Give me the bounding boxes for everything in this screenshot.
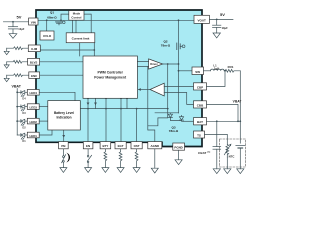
wire SW output: [204, 70, 211, 72]
wire bus to OST pin: [136, 109, 138, 142]
pin AGND: [148, 142, 162, 149]
svg-text:OST: OST: [134, 144, 140, 148]
svg-text:ILIM: ILIM: [31, 47, 37, 51]
svg-text:D1: D1: [22, 139, 26, 143]
wire Q3 link: [155, 112, 179, 114]
capacitor C-out: [213, 19, 221, 33]
wire VIN input: [3, 21, 28, 23]
pin VIN: [29, 18, 38, 25]
wire CBB to battery node: [207, 104, 239, 121]
wire comparator output to PWM: [139, 89, 151, 91]
svg-text:PWM Controller: PWM Controller: [97, 71, 123, 75]
wire Mode Control right: [84, 14, 91, 33]
resistor R-BTY: [104, 149, 107, 168]
svg-text:AGND: AGND: [151, 144, 160, 148]
wire VOUT output: [209, 18, 233, 20]
block Battery Level Indication: [48, 101, 81, 130]
transistor Q2: [177, 43, 185, 50]
ground BTY: [102, 168, 109, 173]
svg-text:Control: Control: [71, 16, 81, 20]
wire to AGND pin: [148, 67, 155, 142]
svg-text:C BAT: C BAT: [198, 151, 207, 155]
wire bus horizontal: [80, 108, 167, 110]
pin CBP: [194, 83, 207, 90]
pin BLVS: [28, 58, 40, 65]
svg-text:LED1: LED1: [30, 134, 38, 138]
wire PWM stub right: [126, 98, 128, 108]
svg-text:LED4: LED4: [30, 91, 38, 95]
wire BAT output: [207, 120, 241, 122]
resistor R-ENC: [7, 74, 29, 77]
wire CBAT: [216, 121, 218, 146]
ground ILIM: [4, 48, 9, 55]
pin ENC: [29, 72, 40, 79]
pin EN: [83, 142, 93, 149]
switch EN: [87, 149, 91, 168]
pin OST: [131, 142, 142, 149]
IC body U1: [36, 10, 202, 147]
pin EGT: [115, 142, 126, 149]
battery cell: [236, 145, 245, 168]
pin LED4: [27, 90, 39, 96]
block PWM Controller Power Management: [83, 56, 137, 98]
ground PB: [60, 168, 67, 173]
wire RCS to battery: [239, 71, 241, 143]
LED D4: [16, 91, 27, 97]
op-amp driver A1: [149, 59, 163, 69]
svg-text:D3: D3: [22, 111, 26, 115]
battery pack dashed box: [220, 139, 246, 167]
svg-text:LED3: LED3: [30, 105, 38, 109]
block Mode Control: [69, 11, 84, 21]
svg-text:VOUT: VOUT: [198, 18, 207, 22]
wire ILIM to PWM: [40, 43, 94, 56]
pin BAT: [194, 118, 207, 125]
wire PGND to ground: [178, 150, 180, 160]
resistor R-OST: [135, 149, 138, 168]
block UVLO: [40, 31, 54, 40]
svg-text:(1): (1): [208, 152, 211, 154]
wire ENC to PWM: [40, 74, 83, 76]
capacitor CBAT: [213, 147, 221, 169]
svg-text:BLVS: BLVS: [30, 61, 38, 65]
svg-text:Driver: Driver: [150, 62, 158, 66]
wire Mode Control to Current limit stubs: [73, 20, 77, 33]
pin SW: [192, 67, 204, 75]
svg-text:Power Management: Power Management: [94, 76, 127, 80]
ground battery: [237, 169, 244, 174]
pin LED3: [27, 104, 39, 110]
svg-text:1μH: 1μH: [214, 67, 219, 71]
wire Current limit to PWM: [79, 43, 81, 56]
svg-text:10μF: 10μF: [18, 27, 24, 31]
op-amp error comparator A2: [150, 83, 164, 96]
wire PWM to EGT pin: [120, 98, 122, 141]
node L1-RCS: [224, 70, 226, 72]
ground input cap: [9, 34, 17, 39]
wire TS to NTC: [205, 134, 228, 144]
transistor Q3b: [179, 115, 183, 121]
LED D1: [17, 133, 27, 139]
ground NTC: [224, 169, 231, 174]
transistor Q3a: [168, 113, 181, 121]
transistor Q1: [56, 21, 66, 25]
svg-text:Battery Level: Battery Level: [54, 111, 74, 115]
wire VBAT bus: [16, 89, 18, 136]
resistor RCS: [225, 69, 240, 72]
svg-text:CBP: CBP: [197, 85, 203, 89]
pin TS: [194, 131, 205, 138]
svg-text:UVLO: UVLO: [43, 34, 52, 38]
node input cap junction: [12, 21, 14, 23]
LED D3: [16, 105, 27, 111]
wire LED3 to battery block: [39, 106, 48, 108]
wire PWM stub to bus: [95, 98, 97, 108]
wire PWM to BTY pin: [105, 98, 107, 141]
pin CBB: [194, 101, 207, 108]
wire battery block to PB pin: [63, 130, 65, 142]
svg-text:V BAT: V BAT: [233, 99, 242, 103]
pin PB: [59, 142, 69, 149]
wire LED2 to battery block: [39, 120, 48, 122]
resistor R-BLVS: [7, 60, 28, 63]
svg-text:10μF: 10μF: [222, 26, 228, 30]
wire BAT internal: [183, 120, 193, 122]
svg-text:EN: EN: [86, 144, 90, 148]
wire comparator input CBP: [164, 86, 193, 88]
svg-text:Current limit: Current limit: [72, 37, 90, 41]
svg-text:ENC: ENC: [31, 74, 38, 78]
wire LED1 to battery block: [39, 130, 52, 135]
svg-text:LED2: LED2: [30, 120, 38, 124]
ground OST: [133, 168, 140, 173]
svg-text:5V: 5V: [17, 14, 22, 19]
wire PWM to EN pin: [87, 98, 89, 141]
svg-text:CBB: CBB: [197, 103, 204, 107]
pin VOUT: [194, 15, 209, 23]
ground ENC: [4, 75, 9, 82]
pin ILIM: [28, 45, 40, 52]
svg-text:Q1: Q1: [50, 11, 54, 15]
block Current limit: [66, 33, 95, 43]
wire LED4 to battery block: [39, 92, 75, 100]
inductor L1: [211, 69, 225, 71]
wire PWM to driver inputs: [137, 62, 148, 67]
thermistor NTC: [224, 144, 231, 157]
wire BLVS to PWM: [40, 61, 83, 63]
svg-text:BAT: BAT: [197, 120, 203, 124]
resistor R-ILIM: [7, 47, 29, 50]
ground AGND: [151, 168, 158, 173]
wire bus end down: [148, 64, 168, 126]
svg-text:VBAT: VBAT: [11, 85, 21, 89]
svg-text:R​CS: R​CS: [228, 65, 234, 69]
wire Mode Control left: [60, 19, 62, 21]
wire top rail VIN to VOUT: [38, 19, 194, 21]
wire NTC to ground: [226, 157, 228, 169]
wire Q2 drain rail: [178, 20, 180, 113]
svg-text:Indication: Indication: [56, 115, 71, 119]
ground EN: [85, 168, 92, 173]
ground C-out: [213, 33, 220, 38]
svg-text:EGT: EGT: [118, 144, 124, 148]
wire CBP sense: [207, 71, 226, 87]
push button PB: [62, 149, 66, 168]
svg-text:78m-Ω: 78m-Ω: [169, 129, 179, 133]
ground BLVS: [4, 62, 9, 69]
pin PGND: [173, 143, 185, 150]
ground PGND: [175, 160, 182, 165]
ground EGT: [117, 168, 124, 173]
wire SW connection: [178, 70, 180, 72]
svg-text:BTY: BTY: [103, 144, 109, 148]
ground CBAT: [213, 169, 220, 174]
svg-text:D4: D4: [22, 97, 26, 101]
svg-text:78m-Ω: 78m-Ω: [161, 44, 171, 48]
capacitor C-in: [8, 22, 17, 34]
svg-text:SW: SW: [195, 70, 200, 74]
svg-text:5V: 5V: [220, 12, 225, 17]
resistor R-EGT: [119, 149, 122, 168]
pin LED1: [27, 132, 39, 138]
LED D2: [16, 119, 27, 125]
svg-text:68m-Ω: 68m-Ω: [47, 16, 57, 20]
wire comparator input CBB: [164, 93, 193, 105]
wire driver output to SW rail: [163, 63, 179, 65]
wire UVLO stub: [46, 19, 48, 21]
wire AGND to ground: [154, 149, 156, 168]
svg-text:PGND: PGND: [174, 146, 182, 150]
svg-text:TS: TS: [197, 134, 201, 138]
svg-text:VIN: VIN: [31, 20, 36, 24]
pin LED2: [27, 118, 39, 124]
svg-text:NTC: NTC: [229, 155, 235, 159]
svg-text:D2: D2: [22, 125, 26, 129]
pin BTY: [100, 142, 111, 149]
